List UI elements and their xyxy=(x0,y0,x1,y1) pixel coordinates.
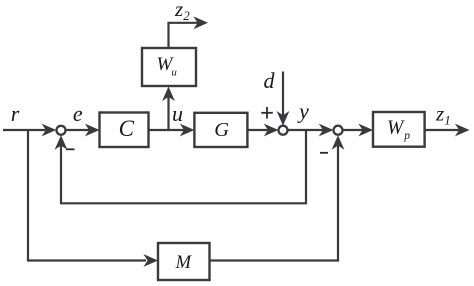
wire d xyxy=(282,72,284,117)
wire r input xyxy=(3,129,48,131)
svg-text:M: M xyxy=(175,253,193,273)
svg-text:d: d xyxy=(264,68,276,93)
arrowhead z2 output xyxy=(193,16,208,29)
wire r branch down to M xyxy=(28,130,146,261)
svg-text:r: r xyxy=(11,101,20,126)
svg-text:C: C xyxy=(119,116,135,141)
wire sum3 to Wp xyxy=(342,129,364,131)
minus sign at sum3 xyxy=(320,152,328,154)
arrowhead into M xyxy=(143,254,158,267)
summing junction 3 xyxy=(334,126,343,135)
arrowhead feedback up into sum1 xyxy=(55,135,68,150)
block G xyxy=(194,113,247,147)
minus sign at sum1 xyxy=(66,148,75,150)
wire inner feedback loop xyxy=(61,130,306,203)
arrowhead into C xyxy=(85,124,100,137)
block C xyxy=(100,113,149,148)
svg-text:G: G xyxy=(214,119,229,141)
block Wu xyxy=(142,48,196,86)
svg-text:z1: z1 xyxy=(435,102,451,128)
arrowhead into sum2 xyxy=(264,124,279,137)
arrowhead M loop up into sum3 xyxy=(332,135,345,150)
wire u branch up to Wu xyxy=(167,96,169,130)
block Wp xyxy=(373,112,425,147)
wire e xyxy=(66,129,90,131)
svg-text:u: u xyxy=(172,101,183,126)
arrowhead up into Wu xyxy=(162,87,175,102)
summing junction 1 xyxy=(57,126,66,135)
arrowhead z1 output xyxy=(455,124,470,137)
arrowhead into sum3 xyxy=(319,124,334,137)
wire C to G with u node xyxy=(149,129,187,131)
plus sign at sum2 xyxy=(261,112,273,114)
arrowhead into sum1 xyxy=(42,124,57,137)
summing junction 2 xyxy=(279,126,288,135)
svg-text:y: y xyxy=(297,99,309,124)
wire M to sum3 xyxy=(210,145,339,261)
wire z1 xyxy=(426,129,461,131)
wire G to sum2 xyxy=(248,129,270,131)
arrowhead into Wp xyxy=(358,124,373,137)
svg-text:e: e xyxy=(73,101,83,126)
wire z2 xyxy=(169,23,200,48)
arrowhead d down into sum2 xyxy=(277,111,290,126)
arrowhead into G xyxy=(180,124,195,137)
block M xyxy=(158,243,210,280)
svg-text:z2: z2 xyxy=(174,0,190,23)
wire y xyxy=(288,129,324,131)
